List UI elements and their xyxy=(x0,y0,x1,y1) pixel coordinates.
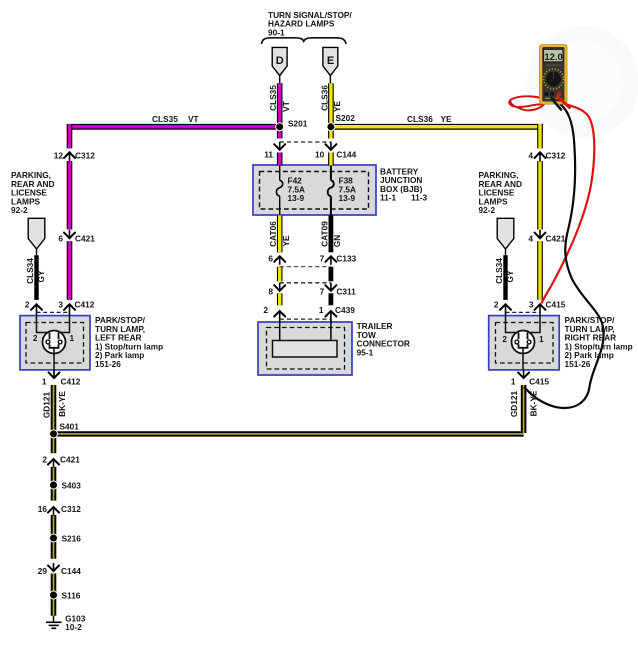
glow behind multimeter xyxy=(527,26,638,138)
svg-text:6: 6 xyxy=(58,234,63,244)
svg-text:GY: GY xyxy=(36,270,46,282)
svg-text:2: 2 xyxy=(502,334,507,344)
svg-text:C312: C312 xyxy=(546,151,566,161)
label bulb pins left xyxy=(33,333,75,343)
svg-text:GD121: GD121 xyxy=(509,390,519,417)
wire into trailer connector left xyxy=(279,322,281,341)
label 11 10 C144 xyxy=(264,150,356,160)
text park stop turn lamp right xyxy=(565,315,633,369)
label G103 10-2 xyxy=(65,613,86,632)
svg-text:C421: C421 xyxy=(75,234,95,244)
dashed link connector C133 xyxy=(280,266,331,268)
connector pentagon D xyxy=(272,47,287,75)
svg-text:C144: C144 xyxy=(61,566,81,576)
label 8 7 C311 xyxy=(268,287,356,297)
svg-text:2: 2 xyxy=(33,333,38,343)
bulb left rear lamp xyxy=(37,316,70,370)
junction S116 xyxy=(50,591,58,599)
wire CLS36 YE from E xyxy=(329,76,332,166)
label 16 C312 xyxy=(38,504,81,514)
svg-text:13-9: 13-9 xyxy=(288,193,305,203)
svg-text:C439: C439 xyxy=(335,305,355,315)
connector C312 pin 4 arrow xyxy=(535,152,546,161)
connector C412 pin 3 arrow xyxy=(64,304,75,315)
ground G103 xyxy=(46,616,62,629)
svg-text:7: 7 xyxy=(320,287,325,297)
connector C421 pin 6 arrow xyxy=(64,230,75,239)
svg-text:S201: S201 xyxy=(288,118,308,128)
svg-text:C312: C312 xyxy=(75,151,95,161)
connector C415 pin 3 arrow xyxy=(535,304,546,315)
svg-text:BK-YE: BK-YE xyxy=(57,391,67,417)
multimeter black probe lead xyxy=(524,101,604,408)
wire CLS34 GY left xyxy=(36,249,38,300)
svg-text:6: 6 xyxy=(268,254,273,264)
connector C415 pin 2 arrow xyxy=(500,304,511,315)
svg-text:CLS36: CLS36 xyxy=(319,85,329,111)
svg-text:2: 2 xyxy=(263,305,268,315)
connector C421 pin 4 arrow xyxy=(535,230,546,239)
svg-text:C421: C421 xyxy=(60,454,80,464)
label 1 C412 lamp left bottom xyxy=(42,376,81,386)
text turn signal title xyxy=(268,10,352,37)
wire GD121 BK-YE left vertical xyxy=(51,385,57,431)
lamp box right rear xyxy=(489,316,560,370)
fuse F42 xyxy=(276,166,282,216)
wire CAT06 YE xyxy=(277,215,283,305)
dashed link connector C439 xyxy=(280,318,331,320)
svg-text:CLS36: CLS36 xyxy=(407,114,433,124)
connector C144 pin 29 arrow xyxy=(48,563,59,571)
connector C312 pin 12 arrow xyxy=(64,152,75,161)
svg-text:CLS35: CLS35 xyxy=(152,114,178,124)
junction S216 xyxy=(50,534,58,542)
svg-text:S216: S216 xyxy=(62,534,82,544)
svg-text:BK-YE: BK-YE xyxy=(529,390,539,416)
brace turn signal xyxy=(262,38,347,44)
svg-text:D: D xyxy=(276,55,284,67)
svg-text:10: 10 xyxy=(315,150,325,160)
svg-text:VT: VT xyxy=(281,101,291,112)
wire CLS34 GY right xyxy=(505,249,507,300)
bulb right rear lamp xyxy=(506,316,541,370)
svg-text:YE: YE xyxy=(441,114,453,124)
battery junction box BJB xyxy=(253,165,376,215)
svg-text:1: 1 xyxy=(70,333,75,343)
multimeter red probe handle xyxy=(558,97,570,108)
svg-text:C144: C144 xyxy=(336,150,356,160)
label GD121 BK-YE left xyxy=(42,391,68,419)
junction S401 xyxy=(50,430,58,438)
svg-text:C421: C421 xyxy=(546,234,566,244)
junction S403 xyxy=(50,481,58,489)
label CLS36 YE horizontal xyxy=(407,114,452,124)
svg-text:C133: C133 xyxy=(336,254,356,264)
svg-text:11-3: 11-3 xyxy=(411,193,428,203)
svg-text:3: 3 xyxy=(58,299,63,309)
svg-text:C312: C312 xyxy=(61,504,81,514)
label CLS34 GY left vertical xyxy=(25,258,46,284)
svg-text:GY: GY xyxy=(505,270,515,282)
label 6 7 C133 xyxy=(268,254,356,264)
dashed link connector C415 lamp right xyxy=(506,311,541,313)
svg-text:S403: S403 xyxy=(62,481,82,491)
svg-text:CLS34: CLS34 xyxy=(494,258,504,284)
svg-text:GD121: GD121 xyxy=(42,391,52,418)
label 2 1 C439 xyxy=(263,305,355,315)
label CLS34 GY right vertical xyxy=(494,258,515,284)
label bulb pins right xyxy=(502,334,544,344)
multimeter red lead loop xyxy=(509,96,547,110)
wire CLS36 YE horizontal xyxy=(331,124,543,130)
svg-text:C415: C415 xyxy=(529,376,549,386)
svg-text:1: 1 xyxy=(539,334,544,344)
svg-text:16: 16 xyxy=(38,504,48,514)
dashed link S201 S202 connector C144 xyxy=(280,141,331,143)
wire CAT09 GN xyxy=(328,215,333,305)
svg-text:E: E xyxy=(327,55,334,67)
label GD121 BK-YE right xyxy=(509,390,539,417)
label 2 3 C412 lamp left top xyxy=(25,299,95,309)
svg-text:S116: S116 xyxy=(62,590,81,600)
label 6 C421 left xyxy=(58,234,95,244)
connector C311 pin 8 arrow xyxy=(274,283,285,291)
svg-text:YE: YE xyxy=(281,235,291,247)
svg-text:CLS34: CLS34 xyxy=(25,258,35,284)
svg-text:10-2: 10-2 xyxy=(65,622,82,632)
wire into trailer connector right xyxy=(330,322,332,341)
svg-text:4: 4 xyxy=(528,234,533,244)
wire GD121 BK-YE right vertical xyxy=(521,385,527,433)
label fuse F38 xyxy=(339,176,357,203)
svg-text:C311: C311 xyxy=(336,287,356,297)
svg-text:VT: VT xyxy=(188,114,199,124)
connector C312 pin 16 arrow xyxy=(48,507,59,516)
label 2 C421 xyxy=(42,454,80,464)
label 4 C312 right xyxy=(528,151,565,161)
svg-text:4: 4 xyxy=(528,151,533,161)
label CAT06 YE vertical xyxy=(268,221,291,247)
label CLS35 VT horizontal xyxy=(152,114,199,124)
wire CLS35 VT horizontal xyxy=(67,124,280,130)
svg-text:29: 29 xyxy=(38,566,48,576)
svg-text:12: 12 xyxy=(54,151,64,161)
text trailer tow connector xyxy=(357,321,410,357)
svg-text:1: 1 xyxy=(511,376,516,386)
wire CLS35 VT left vertical xyxy=(67,124,73,300)
svg-text:95-1: 95-1 xyxy=(357,347,374,357)
wire CLS35 VT from D xyxy=(279,76,281,166)
svg-text:GN: GN xyxy=(332,235,342,247)
connector C144 pin 11 arrow xyxy=(274,142,285,150)
lamp box left rear xyxy=(20,316,90,370)
wire GD121 BK-YE horizontal xyxy=(54,431,524,436)
svg-text:151-26: 151-26 xyxy=(565,359,591,369)
ground chain wire BK-YE xyxy=(51,436,57,616)
svg-text:92-2: 92-2 xyxy=(11,205,28,215)
svg-text:CAT06: CAT06 xyxy=(268,221,278,247)
multimeter xyxy=(540,45,568,105)
label 12 C312 xyxy=(54,151,95,161)
trailer tow connector box xyxy=(258,322,352,375)
svg-text:C412: C412 xyxy=(75,299,95,309)
svg-text:3: 3 xyxy=(529,299,534,309)
text park stop turn lamp left xyxy=(95,315,163,369)
svg-text:S401: S401 xyxy=(60,421,80,431)
wire CLS36 YE right vertical xyxy=(537,124,543,300)
svg-text:1: 1 xyxy=(319,305,324,315)
connector C439 pin 1 arrow xyxy=(325,311,336,322)
svg-text:C412: C412 xyxy=(61,376,81,386)
connector C412 pin 2 arrow xyxy=(31,304,42,315)
svg-text:7: 7 xyxy=(320,254,325,264)
svg-text:S202: S202 xyxy=(336,113,356,123)
svg-text:151-26: 151-26 xyxy=(95,359,121,369)
svg-text:1: 1 xyxy=(42,376,47,386)
svg-text:11-1: 11-1 xyxy=(380,193,397,203)
connector C144 pin 10 arrow xyxy=(325,142,336,150)
label 1 C415 lamp right bottom xyxy=(511,376,549,386)
label 29 C144 xyxy=(38,566,81,576)
svg-text:12.0: 12.0 xyxy=(544,52,563,63)
connector C421 pin 2 arrow xyxy=(48,459,59,468)
text battery junction box xyxy=(380,167,428,203)
connector C311 pin 7 arrow xyxy=(325,283,336,291)
fuse F38 xyxy=(328,166,334,216)
dashed link connector C412 lamp left xyxy=(37,311,70,313)
multimeter black probe handle xyxy=(552,99,562,110)
svg-text:CAT09: CAT09 xyxy=(319,221,329,247)
junction S201 xyxy=(276,123,284,131)
connector pentagon parking lamps right xyxy=(497,218,514,249)
label fuse F42 xyxy=(288,176,306,203)
svg-text:2: 2 xyxy=(25,299,30,309)
multimeter red probe lead xyxy=(542,100,595,304)
svg-text:CLS35: CLS35 xyxy=(268,85,278,111)
connector C412 pin 1 arrow xyxy=(49,370,60,378)
connector C133 pin 6 arrow xyxy=(274,256,285,265)
text parking lamps left xyxy=(11,170,54,215)
svg-text:C415: C415 xyxy=(546,299,566,309)
label 2 3 C415 lamp right top xyxy=(494,299,566,309)
connector C415 pin 1 arrow xyxy=(518,370,529,378)
svg-text:13-9: 13-9 xyxy=(339,193,356,203)
connector pentagon parking lamps left xyxy=(28,218,45,249)
svg-text:2: 2 xyxy=(42,454,47,464)
svg-text:92-2: 92-2 xyxy=(479,205,496,215)
connector pentagon E xyxy=(323,47,338,75)
connector C133 pin 7 arrow xyxy=(325,256,336,265)
junction S202 xyxy=(327,123,335,131)
label CAT09 GN vertical xyxy=(319,221,342,247)
dashed link connector C311 xyxy=(280,282,331,284)
svg-text:90-1: 90-1 xyxy=(268,27,285,37)
svg-text:11: 11 xyxy=(264,150,273,160)
label 4 C421 right xyxy=(528,234,565,244)
svg-text:2: 2 xyxy=(494,299,499,309)
connector C439 pin 2 arrow xyxy=(274,311,285,322)
text parking lamps right xyxy=(479,170,522,215)
svg-text:8: 8 xyxy=(268,287,273,297)
svg-text:YE: YE xyxy=(332,101,342,113)
